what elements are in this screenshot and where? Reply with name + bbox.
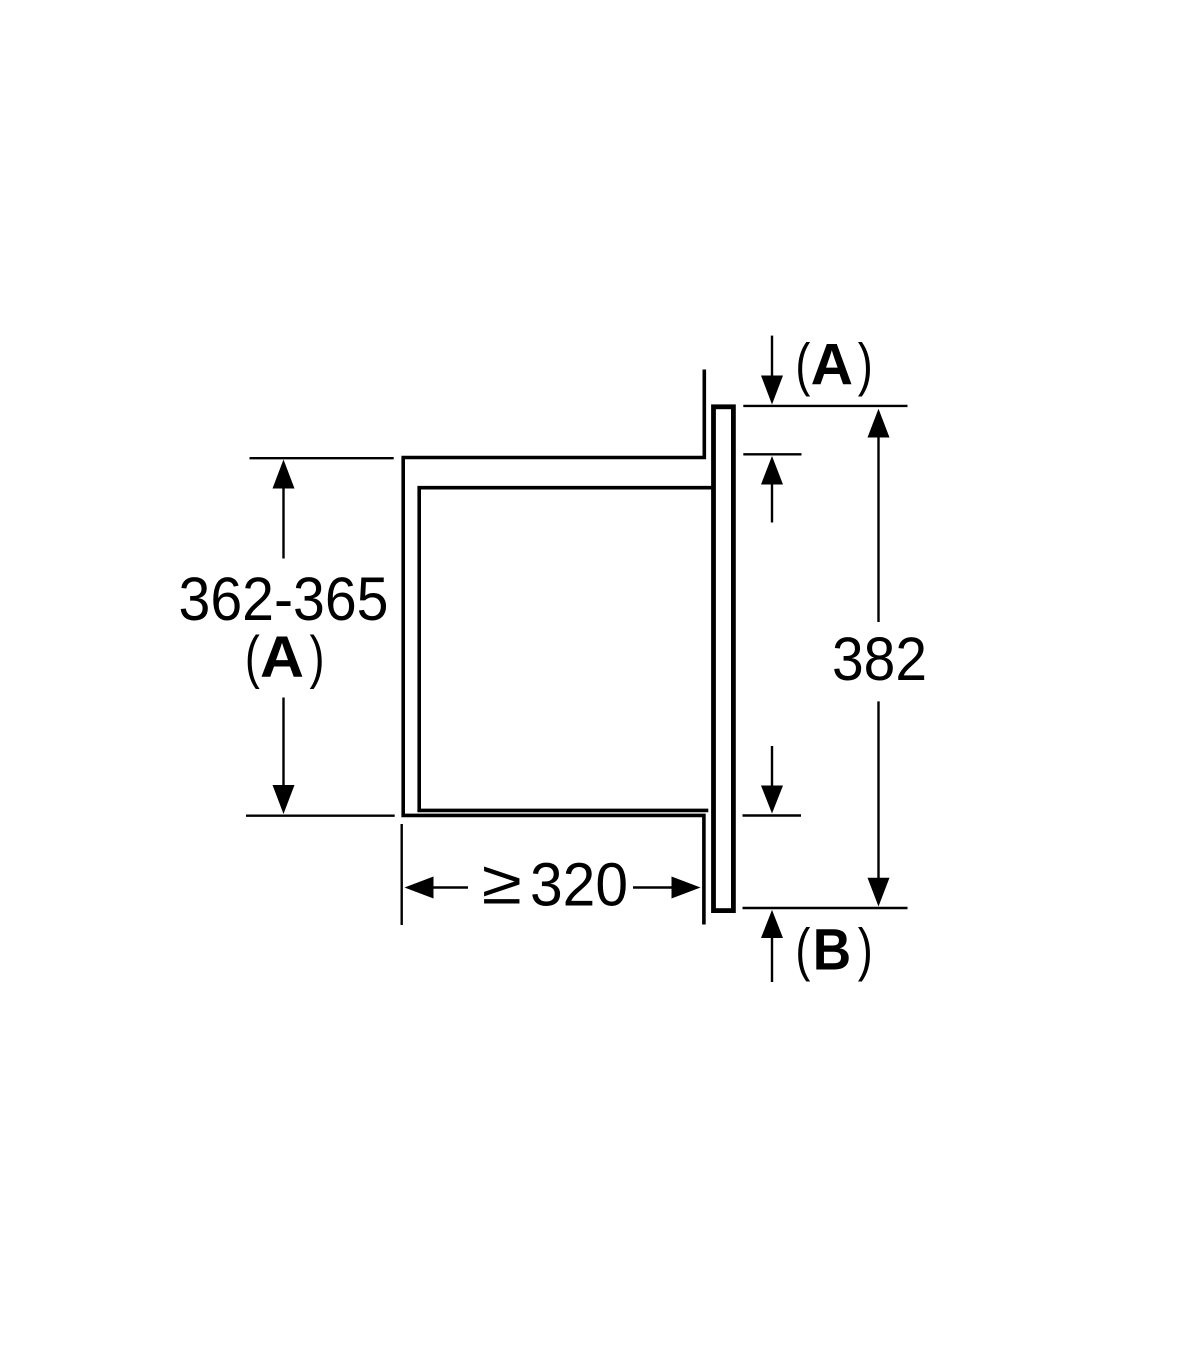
dim line 362-365 lower xyxy=(282,698,284,787)
cabinet outer contour xyxy=(403,370,704,925)
extension line panel-top right xyxy=(743,405,907,407)
svg-text:): ) xyxy=(858,918,873,983)
arrow (B) up shaft xyxy=(771,938,773,983)
extension line top-left xyxy=(250,457,394,459)
dim line 320 left xyxy=(434,886,469,888)
svg-text:): ) xyxy=(858,333,873,398)
appliance front panel xyxy=(714,407,734,911)
svg-text:≥: ≥ xyxy=(482,849,522,918)
dim line 382 upper shaft xyxy=(877,437,879,622)
dim line 320 right xyxy=(633,886,672,888)
svg-text:(: ( xyxy=(795,333,810,398)
arrowhead (B) up xyxy=(761,910,783,938)
dim line 382 lower shaft xyxy=(877,701,879,878)
arrow (A) up shaft xyxy=(771,484,773,523)
extension line 320 left xyxy=(401,824,403,925)
arrowhead 320 right xyxy=(672,877,701,899)
svg-text:(: ( xyxy=(245,625,260,690)
svg-text:): ) xyxy=(310,625,325,690)
arrowhead 382 top xyxy=(868,409,890,438)
cabinet inner contour xyxy=(419,488,714,811)
arrowhead (A) up xyxy=(761,456,783,485)
arrowhead 362-365 down xyxy=(273,785,295,814)
svg-text:A: A xyxy=(260,625,304,690)
svg-text:320: 320 xyxy=(530,851,628,920)
svg-text:A: A xyxy=(811,333,853,398)
arrow (A) down shaft xyxy=(771,336,773,376)
arrowhead (A) down xyxy=(761,376,783,405)
svg-text:382: 382 xyxy=(832,625,927,694)
dim line 362-365 upper xyxy=(282,488,284,559)
svg-text:362-365: 362-365 xyxy=(179,565,389,634)
arrowhead (B) down xyxy=(761,786,783,814)
arrowhead 362-365 up xyxy=(273,460,295,489)
extension line niche-bottom right xyxy=(743,814,802,816)
extension line bottom-left xyxy=(246,815,395,817)
svg-text:B: B xyxy=(813,918,851,983)
arrowhead 320 left xyxy=(405,877,434,899)
arrow (B) down shaft xyxy=(771,746,773,787)
arrowhead 382 bottom xyxy=(868,878,890,907)
svg-text:(: ( xyxy=(795,918,810,983)
extension line niche-top right xyxy=(743,453,801,455)
extension line panel-bottom right xyxy=(743,907,908,909)
